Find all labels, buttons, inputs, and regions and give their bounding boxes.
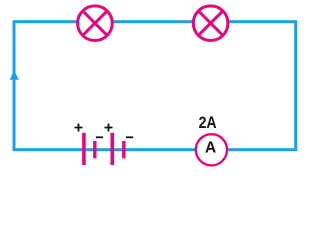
svg-text:A: A [205,139,217,156]
svg-text:2A: 2A [199,114,217,132]
